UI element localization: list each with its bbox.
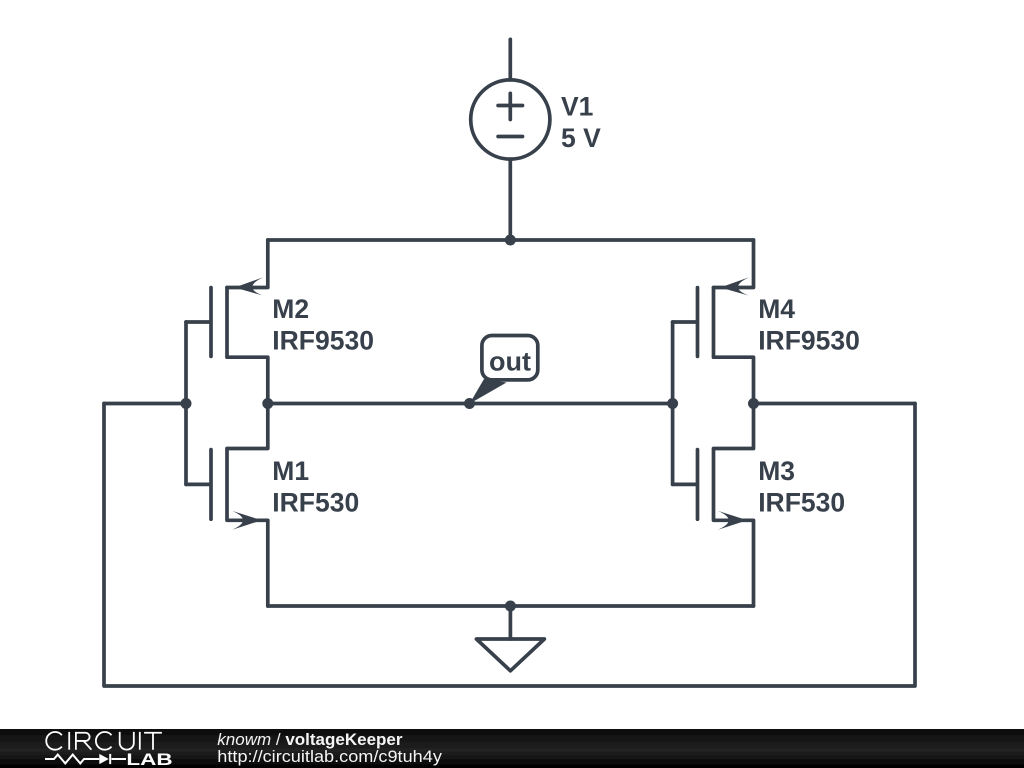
svg-text:out: out bbox=[489, 346, 531, 376]
svg-text:IRF530: IRF530 bbox=[758, 488, 845, 518]
svg-text:M3: M3 bbox=[758, 456, 795, 486]
svg-text:5 V: 5 V bbox=[561, 123, 601, 153]
svg-text:IRF530: IRF530 bbox=[272, 488, 359, 518]
svg-text:V1: V1 bbox=[561, 91, 593, 121]
svg-text:M4: M4 bbox=[758, 294, 795, 324]
svg-text:IRF9530: IRF9530 bbox=[758, 325, 860, 355]
svg-text:IRF9530: IRF9530 bbox=[272, 325, 374, 355]
svg-text:M1: M1 bbox=[272, 456, 309, 486]
svg-text:LAB: LAB bbox=[126, 751, 172, 768]
svg-text:http://circuitlab.com/c9tuh4y: http://circuitlab.com/c9tuh4y bbox=[217, 747, 442, 766]
svg-text:M2: M2 bbox=[272, 294, 309, 324]
